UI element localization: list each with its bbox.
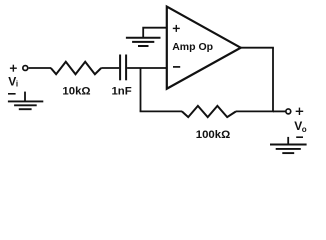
wire noninverting input to ground [143, 28, 167, 38]
ground G2 input reference [8, 101, 43, 109]
wire Vi to ground stub [24, 92, 26, 102]
wire op-amp output horizontal [240, 47, 274, 49]
wire R2 to output node [236, 110, 274, 112]
op-amp U1 triangle [167, 7, 241, 89]
ground G1 at op-amp noninverting input [126, 38, 161, 46]
wire output vertical drop [272, 48, 274, 112]
Vi negative polarity sign [8, 93, 16, 95]
output + polarity sign [296, 108, 304, 115]
resistor R2 100k zigzag [182, 106, 236, 117]
svg-text:1nF: 1nF [111, 86, 131, 98]
svg-text:i: i [16, 80, 18, 89]
capacitor C1 plates [120, 55, 126, 81]
wire Vo to ground stub [287, 137, 289, 144]
wire feedback left segment [140, 110, 182, 112]
wire input to R1 [29, 67, 51, 69]
op-amp inverting - symbol [173, 66, 180, 68]
output terminal circle [286, 109, 291, 114]
input terminal circle [23, 66, 28, 71]
resistor R1 10k zigzag [51, 62, 101, 74]
input + polarity sign [10, 65, 17, 72]
svg-text:o: o [302, 125, 307, 134]
op-amp noninverting + symbol [173, 25, 180, 32]
ground G3 output reference [270, 145, 307, 154]
Vo negative polarity sign [296, 136, 303, 138]
wire C1 to op-amp inverting input [127, 67, 167, 69]
svg-text:100kΩ: 100kΩ [196, 129, 230, 141]
wire output node to output terminal [273, 110, 286, 112]
svg-text:Amp Op: Amp Op [172, 41, 213, 53]
wire R1 to C1 [101, 67, 119, 69]
svg-text:10kΩ: 10kΩ [62, 86, 90, 98]
wire junction down to feedback row [140, 68, 142, 111]
